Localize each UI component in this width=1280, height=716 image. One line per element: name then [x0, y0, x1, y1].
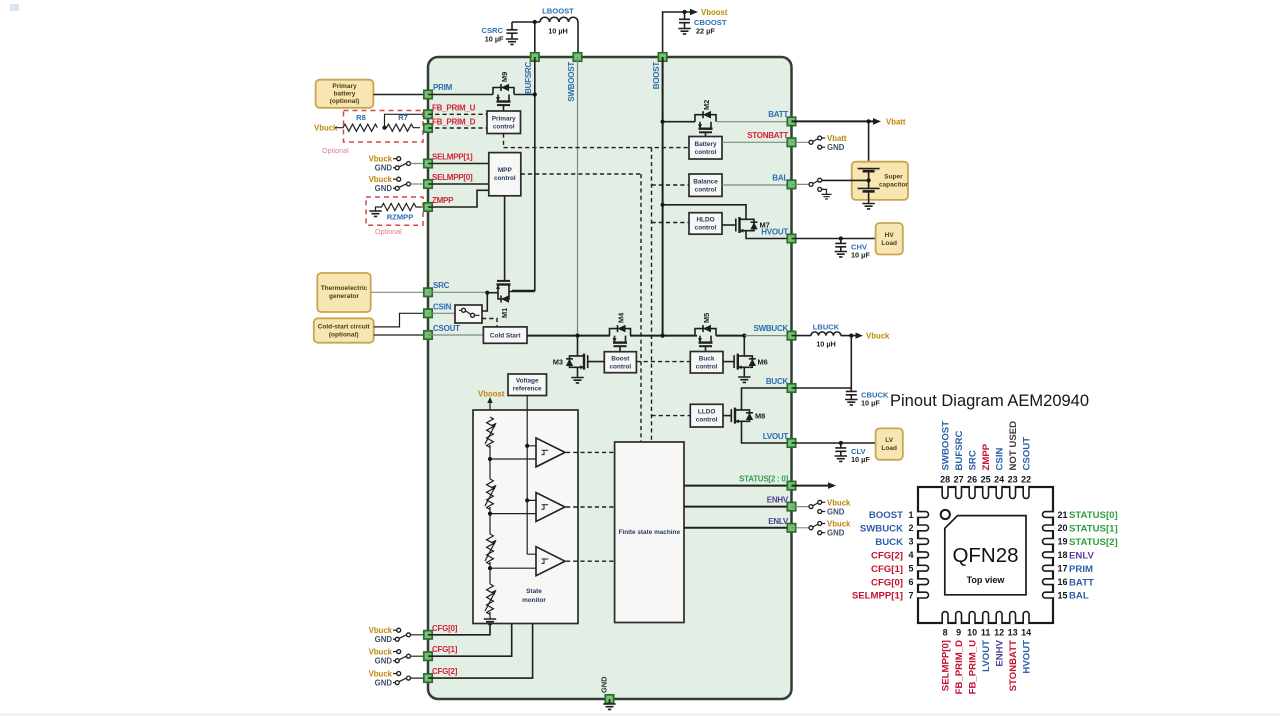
svg-text:5: 5 — [908, 564, 913, 574]
junction CBUCK tap — [849, 334, 853, 338]
svg-text:LBUCK: LBUCK — [813, 323, 840, 332]
pin SELMPP[0] — [424, 173, 473, 188]
svg-text:BATT: BATT — [768, 110, 788, 119]
wire LLDO control to M8 gate — [723, 415, 731, 417]
wire CFG[2] to State monitor — [428, 624, 533, 679]
wire BOOST internal rail — [662, 57, 664, 336]
transistor M9 — [493, 72, 514, 111]
svg-text:LLDO: LLDO — [698, 409, 715, 416]
pin CSOUT — [424, 324, 460, 339]
svg-text:10 µF: 10 µF — [851, 455, 870, 464]
pin 18 ENLV pad — [1043, 552, 1055, 558]
svg-text:control: control — [695, 225, 717, 232]
switch CFG[2] select — [369, 669, 428, 687]
svg-text:Load: Load — [881, 445, 897, 452]
svg-text:Vbuck: Vbuck — [369, 647, 393, 656]
svg-text:State: State — [526, 588, 542, 595]
svg-text:Voltage: Voltage — [516, 378, 539, 385]
svg-text:Super: Super — [884, 174, 903, 181]
svg-text:SELMPP[0]: SELMPP[0] — [432, 173, 473, 182]
capacitor CBUCK — [845, 391, 889, 408]
wire SELMPP[1] to MPP control — [428, 163, 489, 165]
svg-text:8: 8 — [943, 628, 948, 638]
dashed Primary bus to Battery control — [504, 147, 690, 149]
svg-text:ZMPP: ZMPP — [981, 443, 992, 470]
svg-text:Vbuck: Vbuck — [827, 498, 851, 507]
wire HVOUT to HV Load — [792, 238, 876, 240]
svg-text:(optional): (optional) — [330, 98, 360, 105]
wire LBUCK to Vbuck — [841, 335, 858, 337]
svg-text:FB_PRIM_D: FB_PRIM_D — [954, 640, 965, 694]
junction SRC node — [485, 291, 489, 295]
wire BOOST to M7 drain — [663, 205, 746, 212]
wire ladder seg3 + tap3 — [490, 562, 536, 584]
svg-text:HV: HV — [885, 232, 895, 239]
svg-text:STATUS[2]: STATUS[2] — [1069, 537, 1118, 548]
svg-text:M6: M6 — [758, 358, 768, 367]
junction CHV tap — [839, 236, 843, 240]
svg-text:FB_PRIM_U: FB_PRIM_U — [432, 104, 476, 113]
op-block Finite state machine — [615, 442, 684, 623]
dashed FSM to HLDO control — [652, 222, 690, 224]
wire CSOUT to Cold Start block — [428, 334, 483, 336]
svg-text:LVOUT: LVOUT — [763, 432, 789, 441]
capacitor CLV — [835, 443, 871, 464]
svg-text:Boost: Boost — [611, 356, 630, 363]
pin 26 SRC pad — [969, 486, 975, 499]
svg-text:CFG[0]: CFG[0] — [871, 577, 903, 588]
QFN28 exposed pad — [945, 516, 1026, 595]
resistor ladder R-B — [485, 479, 496, 509]
pin 10 FB_PRIM_U pad — [969, 612, 975, 625]
svg-text:M2: M2 — [702, 100, 711, 110]
switch SELMPP[1] select — [369, 155, 428, 173]
capacitor CHV — [835, 239, 871, 260]
svg-text:Thermoelectric: Thermoelectric — [321, 285, 368, 292]
op-block Boost control — [604, 352, 636, 373]
svg-text:12: 12 — [994, 628, 1004, 638]
pin 2 SWBUCK pad — [917, 525, 929, 531]
svg-text:ZMPP: ZMPP — [432, 196, 454, 205]
wire Buck control to M6 gate — [723, 361, 734, 363]
resistor ladder R-D — [485, 584, 496, 614]
svg-text:CSOUT: CSOUT — [1021, 437, 1032, 471]
junction supercap tap — [867, 119, 871, 123]
svg-text:9: 9 — [956, 628, 961, 638]
pin FB_PRIM_U — [424, 104, 476, 119]
transistor M1 — [496, 281, 511, 318]
resistor RZMPP — [369, 203, 422, 221]
pin GND — [600, 676, 614, 703]
svg-text:STATUS[0]: STATUS[0] — [1069, 510, 1118, 521]
svg-text:2: 2 — [908, 523, 913, 533]
op-block Buck control — [690, 352, 723, 374]
pin 15 BAL pad — [1043, 592, 1054, 598]
svg-text:GND: GND — [600, 676, 609, 693]
pin FB_PRIM_D — [424, 118, 476, 133]
svg-text:BUFSRC: BUFSRC — [954, 430, 965, 470]
junction CBOOST tap — [682, 10, 686, 14]
pin BATT — [768, 110, 795, 126]
dashed comparator outputs to FSM — [566, 452, 615, 561]
svg-text:QFN28: QFN28 — [952, 544, 1018, 567]
pin 27 BUFSRC pad — [956, 486, 962, 499]
svg-text:(optional): (optional) — [329, 332, 359, 339]
svg-text:ENHV: ENHV — [767, 496, 789, 505]
optional divider dashed outline — [344, 111, 424, 143]
dashed Primary control to FSM bus — [503, 134, 505, 148]
faint bottom edge line — [0, 713, 1280, 716]
svg-text:M8: M8 — [755, 412, 765, 421]
svg-text:SELMPP[1]: SELMPP[1] — [432, 153, 473, 162]
pin 12 ENHV pad — [996, 612, 1002, 625]
ground BAL option — [822, 194, 832, 199]
wire CFG[0] to State monitor — [428, 624, 490, 635]
svg-text:BUFSRC: BUFSRC — [524, 62, 533, 94]
pin PRIM — [424, 83, 453, 99]
pin STONBATT — [747, 131, 796, 147]
wire M1 drain to BUFSRC rail — [509, 291, 535, 293]
op-amp comparator 1 — [536, 438, 565, 467]
svg-text:GND: GND — [375, 184, 393, 193]
dashed FSM to LLDO control — [652, 415, 691, 417]
junction SWBUCK node — [742, 334, 746, 338]
svg-text:23: 23 — [1008, 475, 1018, 485]
resistor R8 — [335, 113, 377, 131]
svg-text:FB_PRIM_D: FB_PRIM_D — [432, 118, 476, 127]
ground M6 source — [738, 375, 750, 383]
svg-text:CFG[2]: CFG[2] — [871, 550, 903, 561]
svg-text:MPP: MPP — [498, 167, 513, 174]
svg-text:STATUS[2 : 0]: STATUS[2 : 0] — [739, 475, 788, 484]
svg-text:GND: GND — [827, 508, 845, 517]
op-block Balance control — [689, 174, 722, 196]
wire FSM STATUS out — [684, 485, 792, 487]
junction SWBOOST on rail — [575, 334, 579, 338]
svg-text:CFG[1]: CFG[1] — [871, 564, 903, 575]
capacitor CSRC — [481, 22, 518, 44]
wire FSM ENLV out — [684, 527, 792, 529]
Thermoelectric generator box — [317, 273, 370, 312]
svg-text:control: control — [696, 417, 718, 424]
wire SWBUCK node to pin — [744, 335, 791, 337]
capacitor CBOOST — [678, 12, 727, 36]
inductor LBUCK — [811, 323, 841, 349]
op-block State monitor — [473, 410, 578, 624]
svg-text:GND: GND — [827, 143, 845, 152]
svg-text:Optional: Optional — [375, 227, 402, 236]
IC AEM20940 body — [428, 57, 792, 699]
svg-text:Vbuck: Vbuck — [314, 124, 338, 133]
switch ENLV select — [792, 520, 852, 538]
svg-text:CSOUT: CSOUT — [433, 324, 460, 333]
transistor M6 — [734, 336, 768, 375]
svg-text:SWBUCK: SWBUCK — [754, 324, 789, 333]
wire main boost power rail — [527, 335, 610, 337]
switch CFG[0] select — [369, 626, 428, 644]
svg-text:Vboost: Vboost — [701, 8, 728, 17]
pin 28 SWBOOST pad — [942, 486, 948, 498]
transistor M8 — [731, 403, 765, 429]
svg-text:4: 4 — [908, 550, 913, 560]
svg-text:SWBOOST: SWBOOST — [567, 62, 576, 102]
wire M7 source to HVOUT — [746, 237, 792, 240]
svg-text:Primary: Primary — [492, 116, 516, 123]
svg-text:3: 3 — [908, 537, 913, 547]
svg-text:M3: M3 — [553, 358, 563, 367]
resistor R7 — [385, 113, 421, 131]
pin ENHV — [767, 496, 796, 511]
svg-text:STONBATT: STONBATT — [1008, 640, 1019, 691]
svg-text:CFG[2]: CFG[2] — [432, 667, 458, 676]
svg-text:BOOST: BOOST — [869, 510, 903, 521]
svg-text:control: control — [696, 364, 718, 371]
svg-text:27: 27 — [954, 475, 964, 485]
svg-text:10 µF: 10 µF — [861, 399, 880, 408]
wire ladder seg1 + tap1 — [490, 445, 536, 479]
wire M8 source to LVOUT — [742, 429, 792, 443]
wire SRC to M1 source — [428, 291, 487, 293]
wire BOOST to Vboost — [663, 12, 692, 53]
svg-text:capacitor: capacitor — [879, 182, 908, 189]
wire Balance control to BAL — [722, 184, 792, 186]
svg-text:10 µH: 10 µH — [548, 27, 568, 36]
svg-text:Vboost: Vboost — [478, 390, 505, 399]
svg-text:Load: Load — [881, 240, 897, 247]
resistor ladder R-A — [485, 417, 496, 447]
svg-text:SELMPP[1]: SELMPP[1] — [852, 591, 903, 602]
svg-text:Vbatt: Vbatt — [886, 117, 906, 126]
wire M3 gate to Boost control — [588, 361, 605, 363]
ground ladder — [484, 612, 496, 624]
wire Vref rail — [526, 396, 528, 555]
op-amp comparator 3 — [536, 547, 565, 576]
wire M2 to BATT pin — [716, 121, 792, 123]
pin 6 CFG[0] pad — [917, 579, 929, 585]
pin 19 STATUS[2] pad — [1043, 539, 1055, 545]
wire FB_PRIM_U dashed to Primary control — [428, 113, 487, 115]
wire BUCK pin to M8 drain — [742, 388, 792, 403]
pin LVOUT — [763, 432, 796, 447]
pin CSIN — [424, 303, 452, 318]
svg-text:BOOST: BOOST — [652, 62, 661, 90]
svg-text:GND: GND — [375, 656, 393, 665]
wire FSM ENHV out — [684, 506, 792, 508]
pin 13 STONBATT pad — [1010, 612, 1016, 625]
svg-text:Battery: Battery — [694, 141, 716, 148]
svg-text:ENHV: ENHV — [994, 639, 1005, 666]
wire FB_PRIM_D dashed to Primary control — [428, 127, 487, 129]
svg-text:Vbuck: Vbuck — [369, 175, 393, 184]
wire BUFSRC internal rail — [512, 57, 535, 291]
pin 24 CSIN pad — [996, 486, 1002, 499]
Primary battery box — [316, 80, 374, 108]
svg-text:19: 19 — [1058, 537, 1068, 547]
QFN28 package body — [918, 487, 1053, 623]
super capacitor — [852, 162, 909, 204]
svg-text:SRC: SRC — [967, 450, 978, 470]
wire SRC node to M1 — [487, 292, 498, 294]
svg-text:ENLV: ENLV — [1069, 550, 1094, 561]
wire SWBOOST drop — [577, 22, 579, 53]
wire cold-start to CSOUT — [374, 334, 428, 336]
wire PRIM to M9 — [428, 94, 493, 96]
svg-text:BATT: BATT — [1069, 577, 1094, 588]
svg-text:STONBATT: STONBATT — [747, 131, 788, 140]
wire SELMPP[0] to MPP control — [428, 183, 489, 185]
svg-text:26: 26 — [967, 475, 977, 485]
pin BUCK — [766, 377, 796, 392]
svg-text:10 µF: 10 µF — [851, 251, 870, 260]
svg-text:Optional: Optional — [322, 146, 349, 155]
op-block Battery control — [689, 137, 722, 160]
pin 5 CFG[1] pad — [917, 565, 929, 571]
svg-text:25: 25 — [981, 475, 991, 485]
switch CFG[1] select — [369, 647, 428, 665]
svg-text:GND: GND — [375, 164, 393, 173]
pin 1 BOOST pad — [917, 512, 928, 518]
svg-text:control: control — [609, 364, 631, 371]
svg-text:Buck: Buck — [699, 356, 715, 363]
svg-text:reference: reference — [513, 386, 542, 393]
optional RZMPP dashed outline — [366, 197, 423, 225]
junction M9-BUFSRC — [533, 92, 537, 96]
wire rail M4 to BOOST junction — [630, 335, 697, 337]
node Vboost ladder supply — [478, 390, 505, 418]
transistor M4 — [610, 312, 631, 352]
inductor LBOOST — [540, 7, 578, 36]
svg-text:LVOUT: LVOUT — [981, 640, 992, 672]
svg-text:LBOOST: LBOOST — [542, 7, 574, 16]
svg-text:RZMPP: RZMPP — [387, 213, 414, 222]
pin 8 SELMPP[0] pad — [942, 612, 948, 624]
svg-text:14: 14 — [1021, 628, 1031, 638]
pin 11 LVOUT pad — [983, 612, 989, 625]
switch ENHV select — [792, 498, 852, 516]
wire BUCK pin to CBUCK — [792, 387, 852, 389]
svg-text:R8: R8 — [356, 113, 366, 122]
svg-text:BAL: BAL — [772, 174, 788, 183]
pin BAL — [772, 174, 795, 189]
svg-text:M4: M4 — [617, 312, 626, 323]
svg-text:SWBOOST: SWBOOST — [940, 421, 951, 471]
wire cold-start to CSIN — [374, 313, 428, 327]
svg-text:22 µF: 22 µF — [696, 27, 715, 36]
pin 4 CFG[2] pad — [917, 552, 929, 558]
wire M5 to SWBUCK junction — [716, 335, 744, 337]
svg-text:control: control — [494, 175, 516, 182]
svg-text:Cold Start: Cold Start — [490, 333, 521, 340]
pin BOOST — [652, 53, 667, 89]
wire ZMPP to MPP control — [428, 190, 489, 207]
svg-text:CFG[1]: CFG[1] — [432, 645, 458, 654]
dashed FSM bus vertical A — [640, 174, 642, 442]
svg-text:HVOUT: HVOUT — [761, 228, 788, 237]
pin 17 PRIM pad — [1043, 565, 1055, 571]
pin SRC — [424, 281, 450, 296]
pin BUFSRC — [524, 53, 539, 94]
wire LVOUT to LV Load — [792, 442, 876, 444]
svg-text:20: 20 — [1058, 523, 1068, 533]
svg-text:battery: battery — [334, 91, 356, 98]
svg-text:17: 17 — [1058, 564, 1068, 574]
svg-text:CSIN: CSIN — [994, 448, 1005, 471]
svg-text:control: control — [695, 149, 717, 156]
pin 23 NOT USED pad — [1010, 486, 1016, 499]
svg-text:generator: generator — [329, 293, 359, 300]
ground main GND — [603, 699, 615, 709]
wire Vref taps to comparators — [527, 446, 536, 554]
svg-text:Finite state machine: Finite state machine — [619, 529, 681, 536]
junction divider tap — [382, 126, 386, 130]
svg-text:Primary: Primary — [332, 83, 357, 90]
transistor M3 — [553, 336, 588, 383]
switch BAL select — [792, 178, 827, 194]
wire CSRC to LBOOST top net — [512, 21, 540, 23]
svg-text:CFG[0]: CFG[0] — [432, 624, 458, 633]
junction BOOST-M2 — [661, 120, 665, 124]
wire CFG[1] to State monitor — [428, 624, 512, 657]
op-block MPP control — [489, 153, 521, 196]
pin 22 CSOUT pad — [1023, 486, 1029, 499]
svg-text:Vbuck: Vbuck — [369, 669, 393, 678]
junction on BUFSRC branch — [533, 20, 537, 24]
wire TEG to SRC — [371, 291, 428, 293]
svg-text:Vbatt: Vbatt — [827, 134, 847, 143]
svg-text:Vbuck: Vbuck — [369, 155, 393, 164]
wire SWBOOST internal rail — [577, 57, 579, 336]
svg-text:GND: GND — [827, 529, 845, 538]
pin 14 HVOUT pad — [1023, 612, 1029, 625]
svg-text:GND: GND — [375, 635, 393, 644]
svg-text:28: 28 — [940, 475, 950, 485]
switch SELMPP[0] select — [369, 175, 428, 193]
pin HVOUT — [761, 228, 795, 243]
svg-text:monitor: monitor — [522, 597, 546, 604]
junction CLV tap — [839, 441, 843, 445]
svg-text:SWBUCK: SWBUCK — [860, 524, 903, 535]
ground super capacitor — [862, 204, 874, 209]
pin CFG[0] — [424, 624, 458, 639]
svg-text:10: 10 — [967, 628, 977, 638]
pin ZMPP — [424, 196, 454, 211]
pin 7 SELMPP[1] pad — [917, 592, 928, 598]
svg-text:BUCK: BUCK — [875, 537, 903, 548]
HV Load box — [876, 223, 903, 255]
transistor M5 — [695, 313, 716, 352]
pin SWBOOST — [567, 53, 582, 102]
wire BOOST to M2 — [663, 121, 695, 123]
svg-text:GND: GND — [375, 678, 393, 687]
wire tap to FB_PRIM_U — [385, 114, 429, 127]
svg-text:Vbuck: Vbuck — [369, 626, 393, 635]
wire BATT to Vbatt — [792, 120, 876, 122]
transistor M2 — [695, 100, 716, 137]
transistor M7 — [736, 212, 770, 238]
pin CFG[1] — [424, 645, 458, 660]
svg-text:HLDO: HLDO — [696, 217, 714, 224]
svg-text:SELMPP[0]: SELMPP[0] — [940, 640, 951, 691]
pin SWBUCK — [754, 324, 796, 340]
dashed FSM to Balance control — [652, 184, 690, 186]
svg-text:Pinout Diagram AEM20940: Pinout Diagram AEM20940 — [890, 392, 1089, 410]
faint scan artifact top-left — [10, 4, 19, 11]
op-block LLDO control — [690, 404, 723, 427]
svg-text:18: 18 — [1058, 550, 1068, 560]
svg-text:control: control — [493, 124, 515, 131]
pin 25 ZMPP pad — [983, 486, 989, 499]
pin STATUS[2:0] — [739, 475, 796, 490]
